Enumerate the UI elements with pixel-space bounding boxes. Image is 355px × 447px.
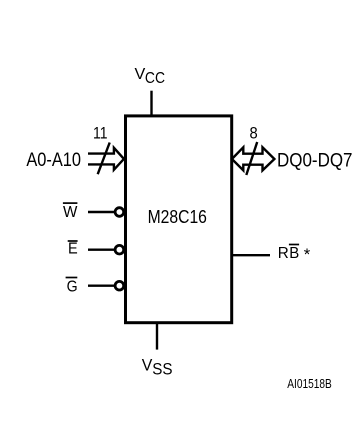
svg-text:R: R — [278, 245, 289, 262]
svg-text:11: 11 — [93, 124, 108, 142]
svg-text:E: E — [68, 241, 78, 258]
A0-A10 bus slash — [98, 143, 110, 175]
DQ0-DQ7 bus arrow — [232, 147, 275, 170]
RB pin wire — [232, 254, 270, 256]
VSS pin wire — [156, 322, 158, 350]
svg-text:A0-A10: A0-A10 — [26, 150, 81, 171]
svg-text:*: * — [304, 246, 311, 264]
VSS label — [142, 357, 173, 379]
G inversion bubble — [115, 281, 124, 290]
svg-text:CC: CC — [145, 70, 165, 87]
E inversion bubble — [115, 245, 124, 254]
A0-A10 bus arrow — [88, 148, 124, 170]
svg-text:M28C16: M28C16 — [148, 206, 207, 227]
G pin wire — [88, 285, 114, 287]
VCC pin wire — [150, 91, 152, 117]
B overline — [289, 244, 299, 246]
svg-text:W: W — [63, 204, 78, 221]
W inversion bubble — [115, 208, 124, 217]
DQ0-DQ7 bus slash — [246, 142, 257, 175]
W pin wire — [88, 211, 114, 213]
G overline — [66, 277, 78, 279]
E overline — [68, 240, 78, 242]
RB label — [278, 245, 311, 264]
VCC label — [135, 66, 166, 87]
svg-text:DQ0-DQ7: DQ0-DQ7 — [277, 150, 353, 172]
svg-text:AI01518B: AI01518B — [287, 376, 332, 391]
svg-text:G: G — [67, 279, 78, 296]
svg-text:V: V — [142, 357, 153, 375]
W overline — [63, 202, 78, 204]
svg-text:8: 8 — [250, 124, 258, 142]
svg-text:B: B — [289, 245, 299, 262]
IC body M28C16 — [126, 116, 232, 323]
E pin wire — [88, 248, 114, 250]
svg-text:SS: SS — [152, 361, 172, 379]
